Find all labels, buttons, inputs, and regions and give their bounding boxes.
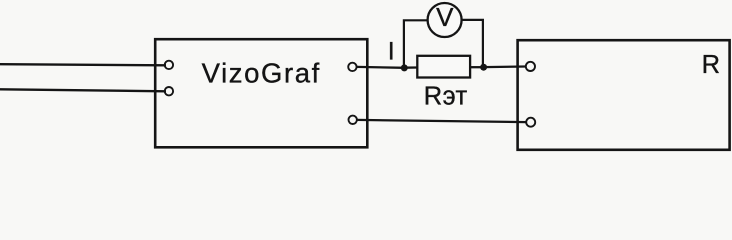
wire input top (0, 64, 166, 65)
svg-text:R: R (702, 51, 720, 79)
wire U1 bottom to load box (357, 120, 526, 122)
wire resistor to node B (470, 66, 484, 68)
svg-text:VizoGraf: VizoGraf (202, 58, 321, 89)
svg-text:V: V (436, 2, 454, 32)
wire U1 to node A (357, 66, 405, 69)
terminal U1 right 1 (348, 63, 356, 71)
voltmeter PV1 circle (428, 3, 462, 37)
wire node A up to voltmeter (404, 20, 428, 68)
wire input bottom (0, 89, 166, 91)
wire node A to resistor (404, 66, 417, 68)
terminal U1 left 2 (165, 87, 173, 95)
wire voltmeter to node B (461, 20, 483, 67)
wire node B to load box (484, 65, 526, 68)
load box R (518, 40, 730, 150)
terminal U1 right 2 (349, 116, 357, 124)
terminal R left 1 (526, 62, 535, 71)
terminal R left 2 (526, 118, 535, 127)
svg-text:I: I (388, 38, 395, 66)
terminal U1 left 1 (165, 61, 173, 69)
node A junction dot (401, 64, 408, 71)
node B junction dot (480, 64, 487, 71)
device U1 VizoGraf box (155, 39, 367, 147)
resistor Rэт body (417, 56, 470, 78)
svg-text:Rэт: Rэт (424, 82, 468, 110)
